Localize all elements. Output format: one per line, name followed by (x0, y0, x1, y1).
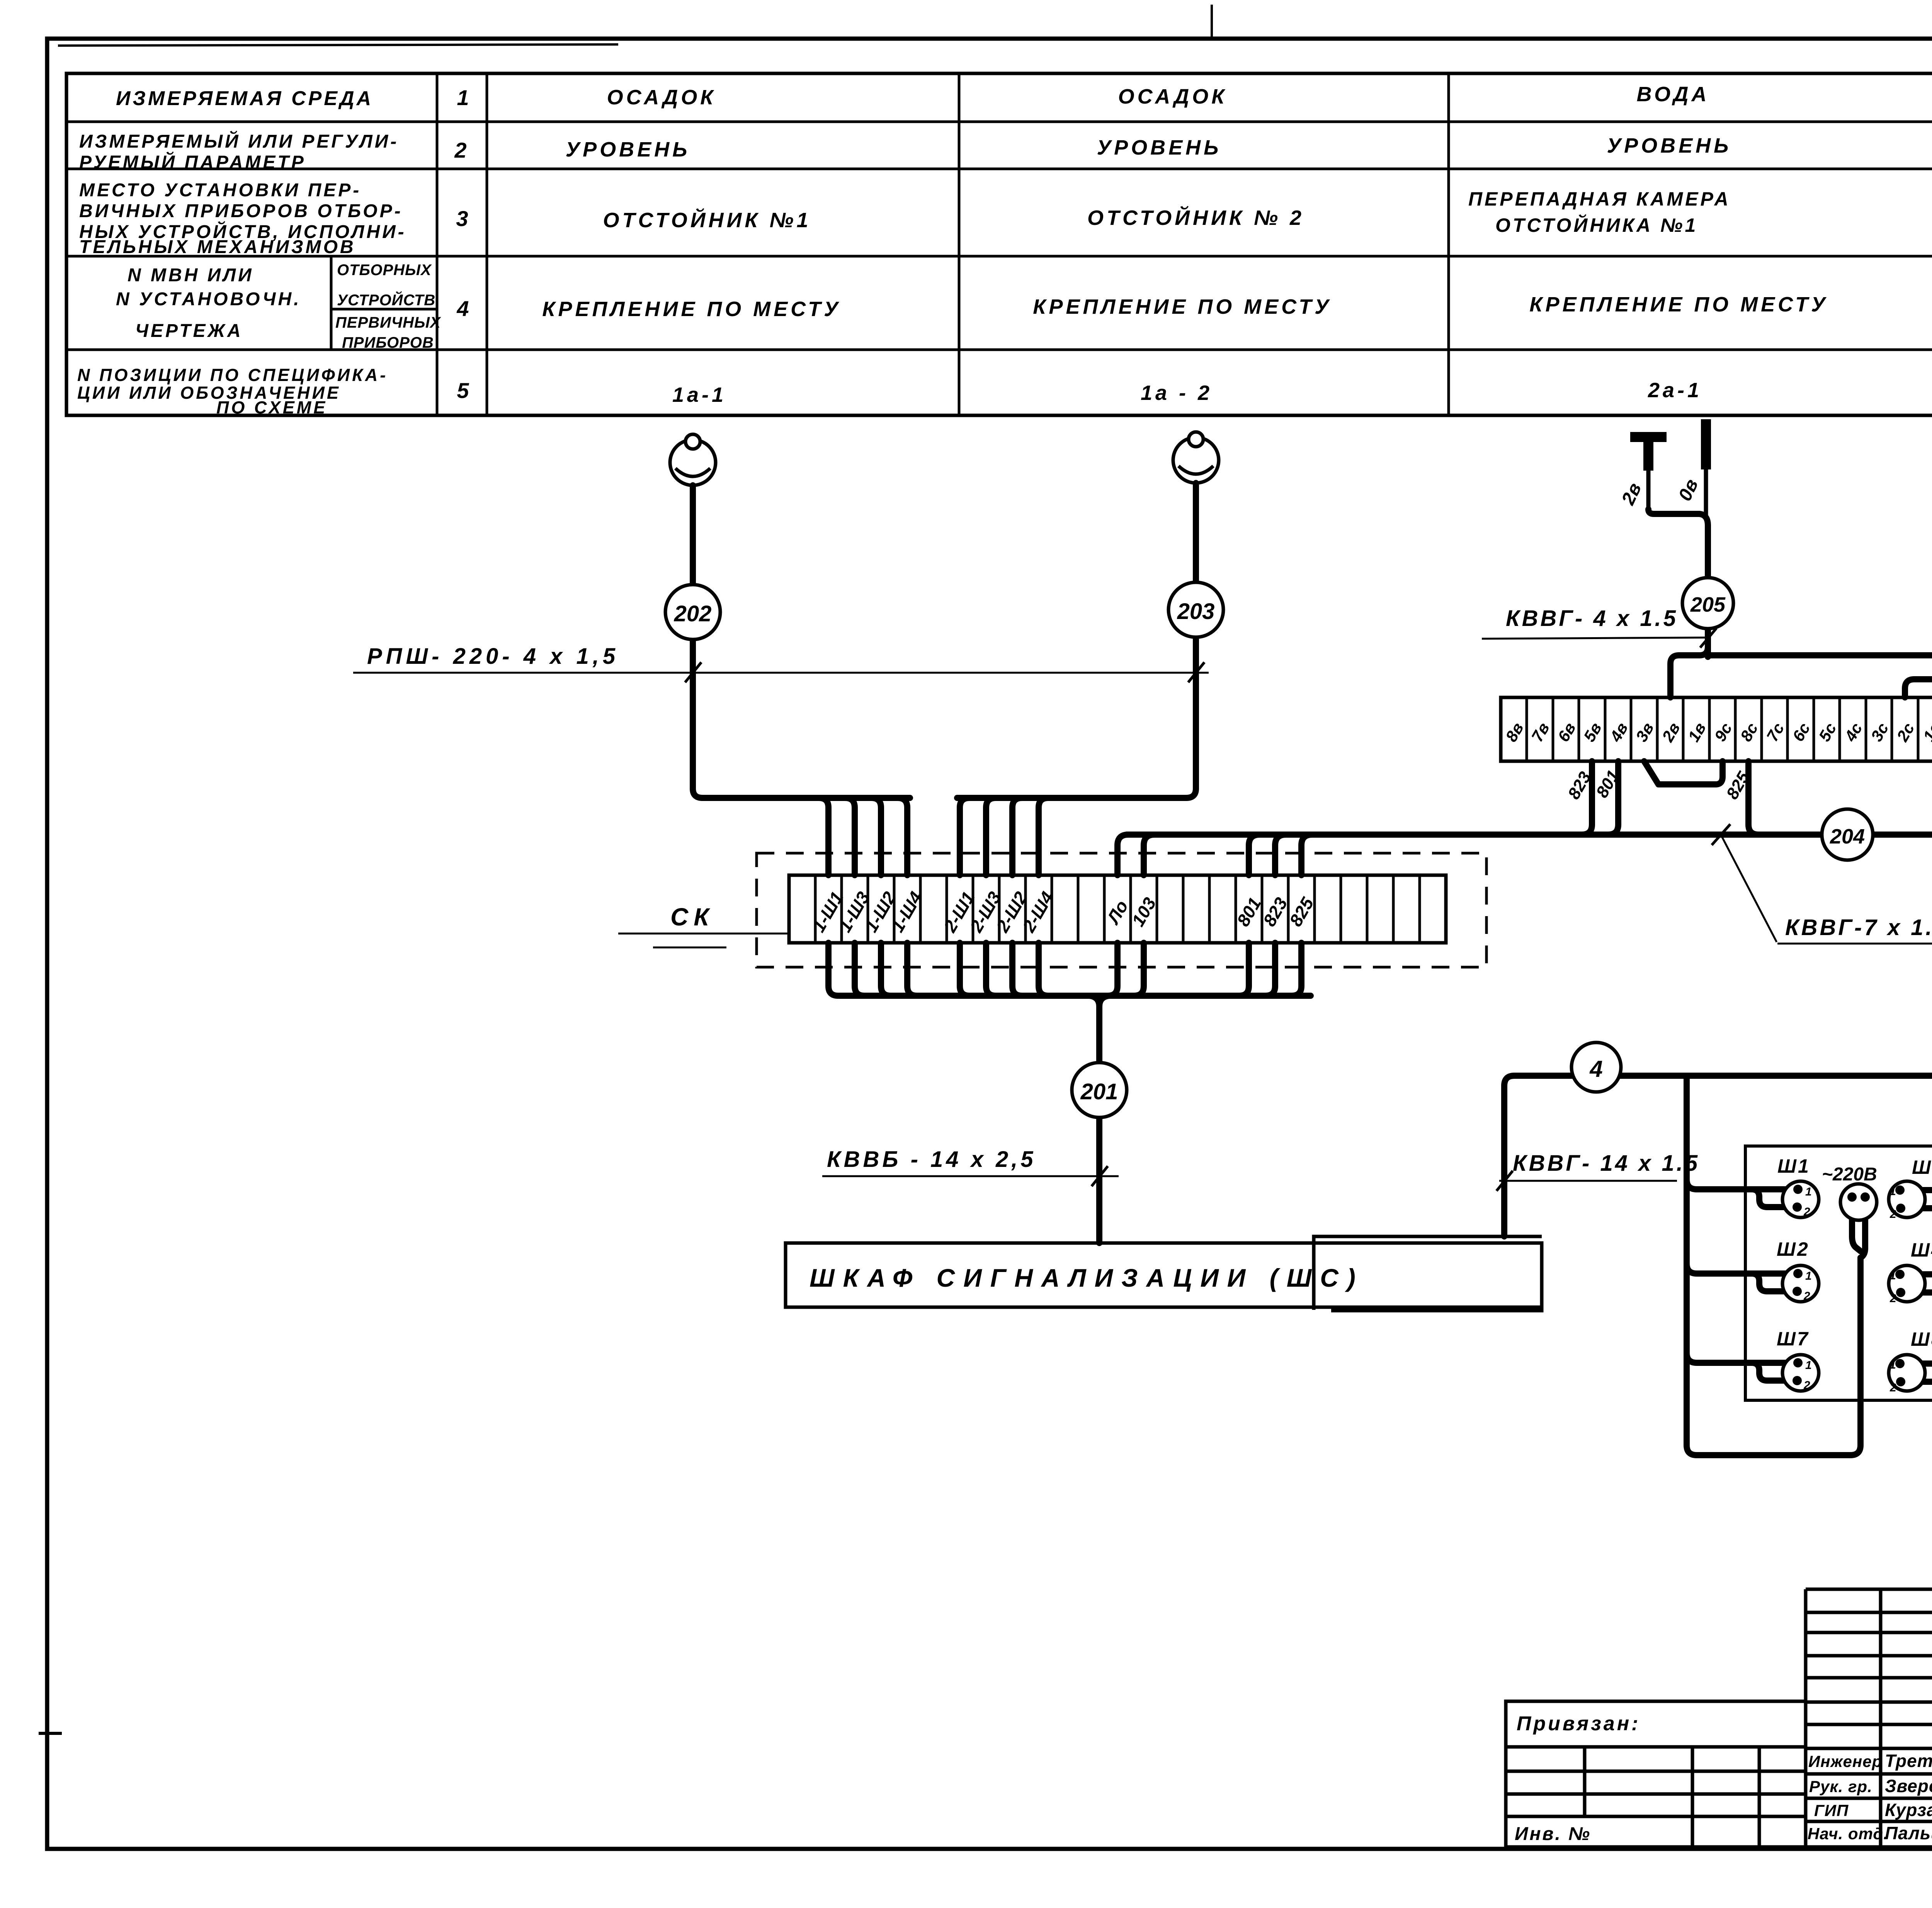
svg-text:Курзанов: Курзанов (1885, 1800, 1932, 1820)
cable loop left vertical wire (1687, 1076, 1861, 1455)
cable label line RPSh-220-4x1.5 (353, 672, 1209, 674)
parameter table (66, 73, 1932, 415)
svg-text:Инв. №: Инв. № (1515, 1824, 1591, 1844)
wire circle 202 down to cable bus (693, 638, 910, 798)
svg-text:ВИЧНЫХ ПРИБОРОВ ОТБОР-: ВИЧНЫХ ПРИБОРОВ ОТБОР- (79, 201, 403, 221)
svg-text:204: 204 (1830, 825, 1865, 848)
cable mark slash on bus (1712, 824, 1730, 845)
svg-text:Рук. гр.: Рук. гр. (1809, 1777, 1872, 1796)
svg-text:1а-1: 1а-1 (672, 383, 726, 406)
terminal strip CK box (789, 875, 1446, 943)
cable circle 202 (665, 585, 720, 639)
connector Sh3 wire pin2 (1901, 1199, 1932, 1208)
left frame fold mark (39, 1732, 62, 1735)
wire 205 to terminal 2v and 0v (1670, 641, 1708, 697)
svg-text:РПШ- 220- 4 х 1,5: РПШ- 220- 4 х 1,5 (367, 644, 619, 669)
svg-text:1а - 2: 1а - 2 (1141, 381, 1213, 405)
svg-text:УРОВЕНЬ: УРОВЕНЬ (566, 138, 690, 161)
svg-text:N ПОЗИЦИИ ПО СПЕЦИФИКА-: N ПОЗИЦИИ ПО СПЕЦИФИКА- (77, 365, 388, 385)
electrode rod 0v (1701, 419, 1711, 469)
svg-text:Ш7: Ш7 (1777, 1328, 1810, 1350)
svg-text:3: 3 (456, 206, 468, 231)
svg-text:КВВГ- 4 х 1.5: КВВГ- 4 х 1.5 (1506, 606, 1678, 631)
svg-text:1: 1 (1805, 1270, 1812, 1282)
signal cabinet ShS box (786, 1243, 1542, 1307)
svg-text:4: 4 (456, 296, 469, 321)
dashed enclosure box CK (757, 853, 1486, 967)
svg-text:УСТРОЙСТВ: УСТРОЙСТВ (337, 291, 435, 309)
terminal strip instrument pos 2b (1501, 697, 1932, 761)
svg-text:ПЕРВИЧНЫХ: ПЕРВИЧНЫХ (335, 314, 441, 331)
svg-text:Привязан:: Привязан: (1517, 1712, 1640, 1735)
wire drop to terminal 1-Sh2 (871, 798, 881, 875)
svg-text:Зверева: Зверева (1885, 1776, 1932, 1796)
cable mark slash on riser (1497, 1171, 1513, 1191)
cable mark slash at 202 (685, 662, 701, 682)
svg-text:4: 4 (1589, 1056, 1602, 1082)
cable circle 204 (1822, 809, 1873, 860)
svg-text:2: 2 (1803, 1206, 1810, 1218)
svg-text:КВВГ- 14 х 1.5: КВВГ- 14 х 1.5 (1513, 1151, 1700, 1176)
svg-text:УРОВЕНЬ: УРОВЕНЬ (1607, 134, 1732, 157)
svg-text:УРОВЕНЬ: УРОВЕНЬ (1097, 136, 1222, 159)
wire drop to terminal 1-Sh1 (819, 798, 828, 875)
svg-text:ВОДА: ВОДА (1637, 83, 1710, 106)
level sensor symbol for pos 1a-2 (1173, 432, 1219, 483)
svg-text:ОТСТОЙНИК № 2: ОТСТОЙНИК № 2 (1087, 206, 1304, 230)
wire ShS box to device loop (1504, 1076, 1932, 1376)
svg-text:Пальцев: Пальцев (1885, 1823, 1932, 1843)
svg-text:РУЕМЫЙ ПАРАМЕТР: РУЕМЫЙ ПАРАМЕТР (79, 151, 306, 173)
svg-text:203: 203 (1177, 599, 1215, 624)
svg-text:2: 2 (1889, 1208, 1896, 1221)
electrode connecting wire (1648, 509, 1708, 578)
svg-text:~220В: ~220В (1822, 1164, 1877, 1185)
table data texts (542, 82, 1932, 406)
wire terminal 8s down to bus 204 (1748, 761, 1759, 835)
connector Sh1 wire pin1 (1687, 1179, 1798, 1189)
wire sensor 1a-1 to circle 202 (690, 485, 696, 585)
wires CK strip bottom to collector (828, 943, 1301, 996)
connector Sh2 wire pin1 (1687, 1263, 1798, 1274)
connector Sh3 (1889, 1156, 1932, 1221)
svg-text:КРЕПЛЕНИЕ ПО МЕСТУ: КРЕПЛЕНИЕ ПО МЕСТУ (542, 298, 841, 321)
cable circle 201 (1072, 1063, 1127, 1117)
cable bus 204 (1127, 832, 1932, 838)
svg-text:1: 1 (1889, 1359, 1896, 1371)
svg-text:КРЕПЛЕНИЕ ПО МЕСТУ: КРЕПЛЕНИЕ ПО МЕСТУ (1529, 293, 1828, 316)
svg-text:1: 1 (1805, 1359, 1812, 1372)
cable mark slash at 203 (1188, 662, 1204, 682)
signature rows (1808, 1751, 1932, 1843)
table row lines (66, 121, 1932, 123)
connector Sh3 wire pin1 (1900, 1187, 1932, 1193)
connector Sh4 wire pin1 (1900, 1271, 1932, 1277)
svg-text:ОТБОРНЫХ: ОТБОРНЫХ (337, 262, 432, 279)
svg-text:1: 1 (1889, 1185, 1896, 1198)
wire circle 203 down to cable bus (957, 636, 1196, 798)
svg-text:1: 1 (1889, 1269, 1896, 1282)
svg-text:ПРИБОРОВ: ПРИБОРОВ (342, 334, 434, 351)
svg-text:Ш1: Ш1 (1777, 1155, 1810, 1177)
table header texts (77, 87, 441, 417)
svg-text:N УСТАНОВОЧН.: N УСТАНОВОЧН. (116, 289, 301, 309)
svg-text:ГИП: ГИП (1814, 1801, 1849, 1820)
svg-text:1: 1 (457, 85, 469, 110)
terminal labels strip 2b (1502, 719, 1932, 745)
collector wire to cable 201 (840, 993, 1311, 999)
svg-text:2: 2 (1803, 1379, 1810, 1392)
svg-text:Ш8: Ш8 (1911, 1328, 1932, 1350)
table column lines (436, 73, 439, 415)
jumper wire 3v to 9s (1644, 761, 1723, 784)
connector Sh7 wire pin1 (1687, 1353, 1798, 1363)
svg-text:КВВГ-7 х 1.5: КВВГ-7 х 1.5 (1785, 915, 1932, 940)
terminal strip CK cell dividers (815, 875, 1420, 943)
electrode assembly pos 2a-1 (1618, 419, 1708, 578)
connector Sh8 wire pin1 (1900, 1360, 1932, 1367)
cable circle 205 (1705, 629, 1711, 657)
wire drop to terminal 2-Sh3 (986, 798, 996, 875)
svg-text:2: 2 (1889, 1381, 1896, 1394)
wire terminal 4v down to bus 204 (1608, 761, 1618, 835)
svg-text:5: 5 (457, 378, 469, 403)
title block grid (1506, 1589, 1932, 1847)
svg-text:Ш3: Ш3 (1912, 1156, 1932, 1178)
svg-text:202: 202 (674, 601, 712, 626)
svg-text:ЧЕРТЕЖА: ЧЕРТЕЖА (135, 321, 243, 341)
svg-text:ОТСТОЙНИКА №1: ОТСТОЙНИКА №1 (1495, 214, 1698, 236)
svg-text:КРЕПЛЕНИЕ ПО МЕСТУ: КРЕПЛЕНИЕ ПО МЕСТУ (1033, 295, 1332, 318)
top frame double line (58, 44, 618, 46)
device instrument box pos 1b (1745, 1146, 1932, 1400)
svg-text:Инженер: Инженер (1808, 1752, 1882, 1770)
wire drop to terminal 1-Sh4 (898, 798, 907, 875)
svg-text:КВВБ - 14 х 2,5: КВВБ - 14 х 2,5 (827, 1147, 1036, 1172)
cable circle 4 (1571, 1042, 1621, 1092)
connector Sh1 wire pin2 (1752, 1189, 1797, 1207)
svg-text:2: 2 (1889, 1292, 1896, 1305)
svg-text:205: 205 (1690, 593, 1726, 616)
jumper wire 2s to 0v (1905, 679, 1932, 697)
power pair 220V down wires (1852, 1201, 1861, 1251)
leader to cable label (1721, 836, 1777, 942)
connector Sh4 wire pin2 (1901, 1284, 1932, 1292)
connector Sh2 wire pin2 (1752, 1274, 1797, 1291)
electrode rod with plate (1630, 432, 1667, 442)
svg-text:СК: СК (670, 903, 714, 931)
wire terminal 5v down to bus 204 (1582, 761, 1592, 835)
terminal labels CK strip (808, 888, 1318, 936)
svg-text:МЕСТО УСТАНОВКИ ПЕР-: МЕСТО УСТАНОВКИ ПЕР- (79, 180, 361, 201)
power connector 220V (1822, 1164, 1877, 1220)
svg-text:ПО СХЕМЕ: ПО СХЕМЕ (216, 398, 327, 417)
connector Sh8 wire pin2 (1901, 1367, 1932, 1382)
svg-text:Ш2: Ш2 (1777, 1238, 1810, 1260)
privyazan block (1506, 1701, 1806, 1847)
wire circle 201 to ShS box (1096, 1117, 1102, 1243)
wire drop to terminal 2-Sh2 (1012, 798, 1022, 875)
svg-text:ОТСТОЙНИК №1: ОТСТОЙНИК №1 (603, 208, 811, 232)
svg-text:ИЗМЕРЯЕМАЯ СРЕДА: ИЗМЕРЯЕМАЯ СРЕДА (116, 87, 373, 110)
row4 sub cell divider (330, 256, 333, 350)
svg-text:Третьякова: Третьякова (1885, 1751, 1932, 1771)
svg-text:2: 2 (1803, 1290, 1810, 1303)
svg-text:Ш4: Ш4 (1911, 1239, 1932, 1261)
svg-text:1: 1 (1805, 1185, 1812, 1198)
svg-text:ШКАФ СИГНАЛИЗАЦИИ (ШС): ШКАФ СИГНАЛИЗАЦИИ (ШС) (810, 1263, 1364, 1292)
wire drop to terminal 1-Sh3 (845, 798, 855, 875)
wire drop to terminal 2-Sh1 (960, 798, 969, 875)
svg-text:N МВН ИЛИ: N МВН ИЛИ (128, 265, 254, 286)
connector Sh7 wire pin2 (1752, 1363, 1797, 1381)
svg-text:ПЕРЕПАДНАЯ КАМЕРА: ПЕРЕПАДНАЯ КАМЕРА (1468, 188, 1731, 210)
top margin fold mark (1211, 5, 1213, 38)
svg-text:2: 2 (454, 138, 466, 162)
wire sensor 1a-2 to circle 203 (1193, 483, 1199, 583)
row number column (454, 85, 469, 403)
connector Sh8 (1889, 1328, 1932, 1394)
connector Sh4 (1889, 1239, 1932, 1305)
svg-text:ОСАДОК: ОСАДОК (607, 86, 716, 109)
svg-text:Нач. отд.: Нач. отд. (1808, 1825, 1888, 1843)
connector Sh7 (1777, 1328, 1819, 1392)
wire drop to terminal 2-Sh4 (1039, 798, 1048, 875)
connector Sh1 (1777, 1155, 1819, 1218)
cable mark slash at 201 wire (1092, 1166, 1108, 1186)
svg-text:ТЕЛЬНЫХ МЕХАНИЗМОВ: ТЕЛЬНЫХ МЕХАНИЗМОВ (79, 237, 356, 257)
wires CK strip top rises to bus 204 (1117, 835, 1128, 875)
svg-text:ИЗМЕРЯЕМЫЙ ИЛИ РЕГУЛИ-: ИЗМЕРЯЕМЫЙ ИЛИ РЕГУЛИ- (79, 131, 399, 152)
svg-text:201: 201 (1080, 1079, 1118, 1104)
cable circle 203 (1168, 582, 1223, 637)
svg-text:ОСАДОК: ОСАДОК (1118, 85, 1228, 108)
svg-text:2а-1: 2а-1 (1648, 379, 1702, 402)
connector Sh2 (1777, 1238, 1819, 1303)
level sensor symbol for pos 1a-1 (670, 434, 716, 485)
